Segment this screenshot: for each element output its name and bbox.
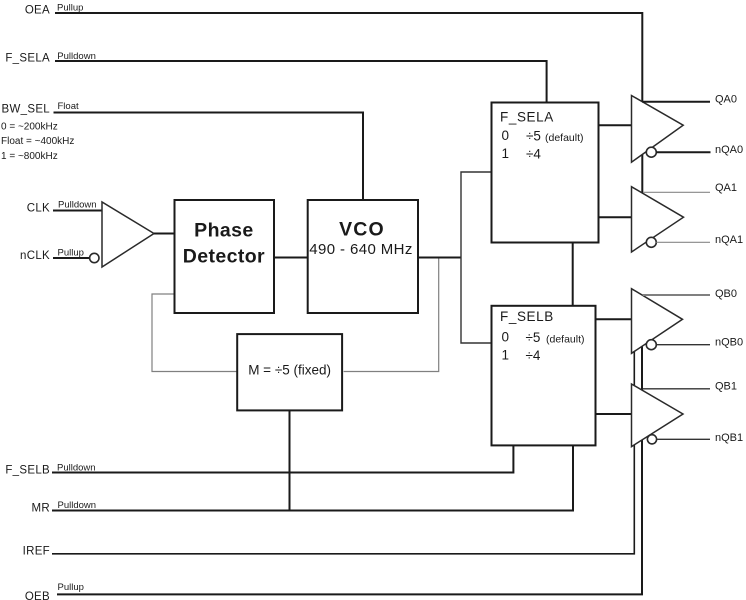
divider block F_SELA — [492, 103, 599, 243]
svg-text:Pullup: Pullup — [58, 248, 84, 259]
svg-text:CLK: CLK — [27, 203, 50, 215]
wire divider A to QA1 buffer — [599, 216, 632, 218]
svg-text:Pullup: Pullup — [57, 3, 83, 14]
wire nQB1 output — [657, 438, 710, 440]
wire nQA0 output — [656, 151, 710, 153]
wire divider B to QB0 buffer — [596, 318, 632, 320]
wire nCLK — [53, 257, 90, 259]
svg-text:Float = ~400kHz: Float = ~400kHz — [1, 136, 74, 147]
svg-text:Pulldown: Pulldown — [58, 200, 97, 211]
svg-text:nCLK: nCLK — [20, 250, 50, 262]
output buffer QA1/nQA1 — [632, 187, 684, 252]
svg-text:Float: Float — [58, 101, 79, 112]
svg-text:MR: MR — [32, 503, 51, 515]
wire QA1 output — [643, 191, 710, 193]
wire input buffer to Phase Detector — [154, 233, 176, 235]
svg-text:OEB: OEB — [25, 591, 50, 600]
wire VCO output — [418, 257, 461, 259]
svg-text:F_SELB: F_SELB — [5, 465, 50, 477]
wire nQA1 output — [656, 241, 710, 243]
wire IREF (pin line up to QB0 buffer) — [52, 350, 634, 554]
VCO block (490 - 640 MHz) — [308, 200, 418, 313]
wire F_SELB (pin line into divider B bottom) — [52, 445, 513, 472]
svg-text:Phase: Phase — [194, 220, 253, 242]
svg-text:490 - 640 MHz: 490 - 640 MHz — [309, 241, 413, 258]
inversion bubble (nCLK input) — [90, 253, 99, 262]
svg-text:1 = ~800kHz: 1 = ~800kHz — [1, 151, 58, 162]
svg-text:0: 0 — [502, 128, 510, 143]
wire divider A to QA0 buffer — [599, 124, 632, 126]
svg-text:(default): (default) — [545, 132, 584, 144]
svg-text:F_SELA: F_SELA — [5, 53, 50, 65]
svg-text:Pulldown: Pulldown — [57, 462, 96, 473]
wire QA0 output — [642, 101, 710, 103]
svg-text:BW_SEL: BW_SEL — [2, 104, 51, 116]
Phase Detector block — [175, 200, 275, 313]
inversion bubble (nQB0) — [646, 340, 656, 350]
svg-text:÷4: ÷4 — [526, 348, 541, 363]
svg-text:QB1: QB1 — [715, 380, 737, 392]
inversion bubble (nQA0) — [646, 147, 656, 157]
svg-text:1: 1 — [502, 146, 510, 161]
svg-text:Pullup: Pullup — [58, 582, 84, 593]
svg-text:0 = ~200kHz: 0 = ~200kHz — [1, 122, 58, 133]
wire MR between divider A bottom and divider B top — [572, 243, 574, 306]
divider block F_SELB — [492, 306, 596, 446]
svg-text:M = ÷5 (fixed): M = ÷5 (fixed) — [248, 363, 331, 378]
wire nQB0 output — [656, 344, 710, 346]
svg-text:VCO: VCO — [339, 219, 385, 241]
svg-text:(default): (default) — [546, 334, 585, 346]
svg-text:nQA1: nQA1 — [715, 234, 743, 246]
feedback divider M (M = ÷5 fixed) — [237, 334, 342, 410]
svg-text:1: 1 — [502, 348, 510, 363]
wire MR (pin line into divider B bottom) — [52, 445, 573, 510]
wire BW_SEL (pin line into VCO top) — [54, 113, 364, 202]
svg-text:nQA0: nQA0 — [715, 144, 743, 156]
svg-text:F_SELA: F_SELA — [500, 110, 554, 125]
inversion bubble (nQB1) — [647, 435, 656, 444]
svg-text:Pulldown: Pulldown — [58, 500, 97, 511]
inversion bubble (nQA1) — [646, 237, 656, 247]
wire PLL feedback (M divider to Phase Detector) — [152, 294, 237, 372]
wire QB1 output — [643, 388, 710, 390]
output buffer QB1/nQB1 — [632, 384, 684, 447]
wire OEA (pin line + enable vertical to QA buffers) — [55, 13, 642, 244]
wire M divider reset (to MR line) — [289, 411, 291, 511]
wire VCO output to M divider — [344, 258, 439, 372]
svg-text:OEA: OEA — [25, 5, 50, 17]
wire QB0 output — [643, 294, 710, 296]
svg-text:F_SELB: F_SELB — [500, 309, 554, 324]
output buffer QB0/nQB0 — [632, 289, 683, 354]
svg-text:IREF: IREF — [23, 546, 50, 558]
output buffer QA0/nQA0 — [632, 96, 684, 163]
wire Phase Detector to VCO — [274, 257, 308, 259]
svg-text:nQB0: nQB0 — [715, 336, 743, 348]
wire VCO output to dividers F_SELA / F_SELB — [461, 172, 491, 343]
svg-text:÷4: ÷4 — [526, 146, 541, 161]
wire F_SELA (pin line into divider A top) — [55, 61, 547, 103]
svg-text:Pulldown: Pulldown — [57, 51, 96, 62]
svg-text:Detector: Detector — [183, 246, 265, 268]
input buffer (CLK/nCLK) — [102, 202, 154, 267]
wire OEB (pin line up to QB0 buffer) — [57, 346, 642, 594]
wire divider B to QB1 buffer — [596, 413, 632, 415]
BW_SEL value notes — [1, 122, 74, 163]
wire CLK — [53, 210, 102, 212]
svg-text:÷5: ÷5 — [526, 128, 541, 143]
svg-text:÷5: ÷5 — [526, 330, 541, 345]
svg-text:0: 0 — [502, 330, 510, 345]
svg-text:nQB1: nQB1 — [715, 432, 743, 444]
svg-text:QA0: QA0 — [715, 93, 737, 105]
svg-text:QA1: QA1 — [715, 182, 737, 194]
svg-text:QB0: QB0 — [715, 288, 737, 300]
